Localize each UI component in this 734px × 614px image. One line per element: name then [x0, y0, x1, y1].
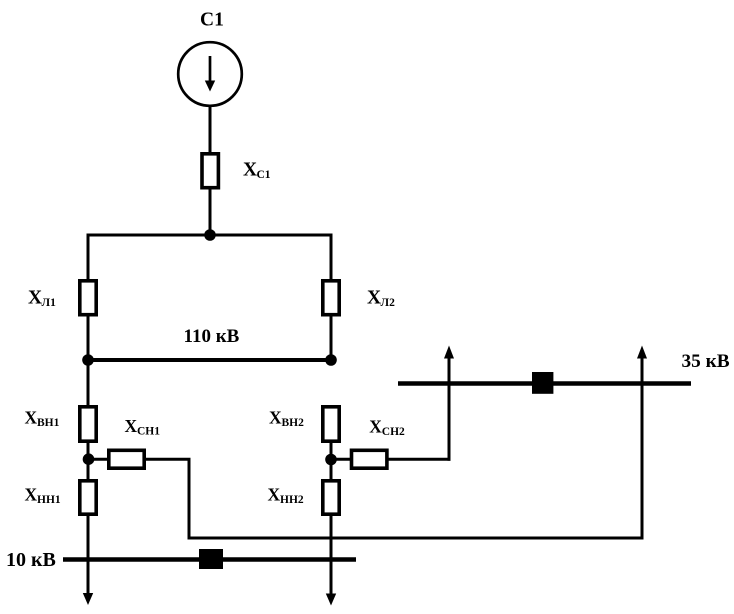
- svg-text:X: X: [367, 288, 381, 309]
- svg-text:10 кВ: 10 кВ: [6, 549, 56, 571]
- svg-text:ВН2: ВН2: [282, 417, 305, 429]
- svg-text:C1: C1: [200, 10, 224, 31]
- svg-text:Л1: Л1: [42, 297, 57, 309]
- svg-text:110 кВ: 110 кВ: [184, 326, 240, 347]
- svg-text:СН2: СН2: [382, 426, 405, 438]
- svg-text:X: X: [25, 408, 38, 428]
- svg-text:X: X: [269, 408, 282, 428]
- svg-text:X: X: [25, 485, 38, 505]
- svg-text:НН2: НН2: [280, 494, 304, 506]
- svg-text:Л2: Л2: [381, 297, 396, 309]
- svg-text:НН1: НН1: [37, 494, 61, 506]
- svg-text:35 кВ: 35 кВ: [682, 351, 730, 372]
- svg-text:C1: C1: [257, 169, 271, 181]
- svg-text:X: X: [125, 416, 138, 436]
- svg-text:ВН1: ВН1: [37, 417, 60, 429]
- svg-text:X: X: [243, 160, 257, 181]
- svg-text:СН1: СН1: [137, 426, 160, 438]
- svg-text:X: X: [268, 485, 281, 505]
- svg-text:X: X: [369, 417, 382, 437]
- svg-text:X: X: [28, 288, 42, 309]
